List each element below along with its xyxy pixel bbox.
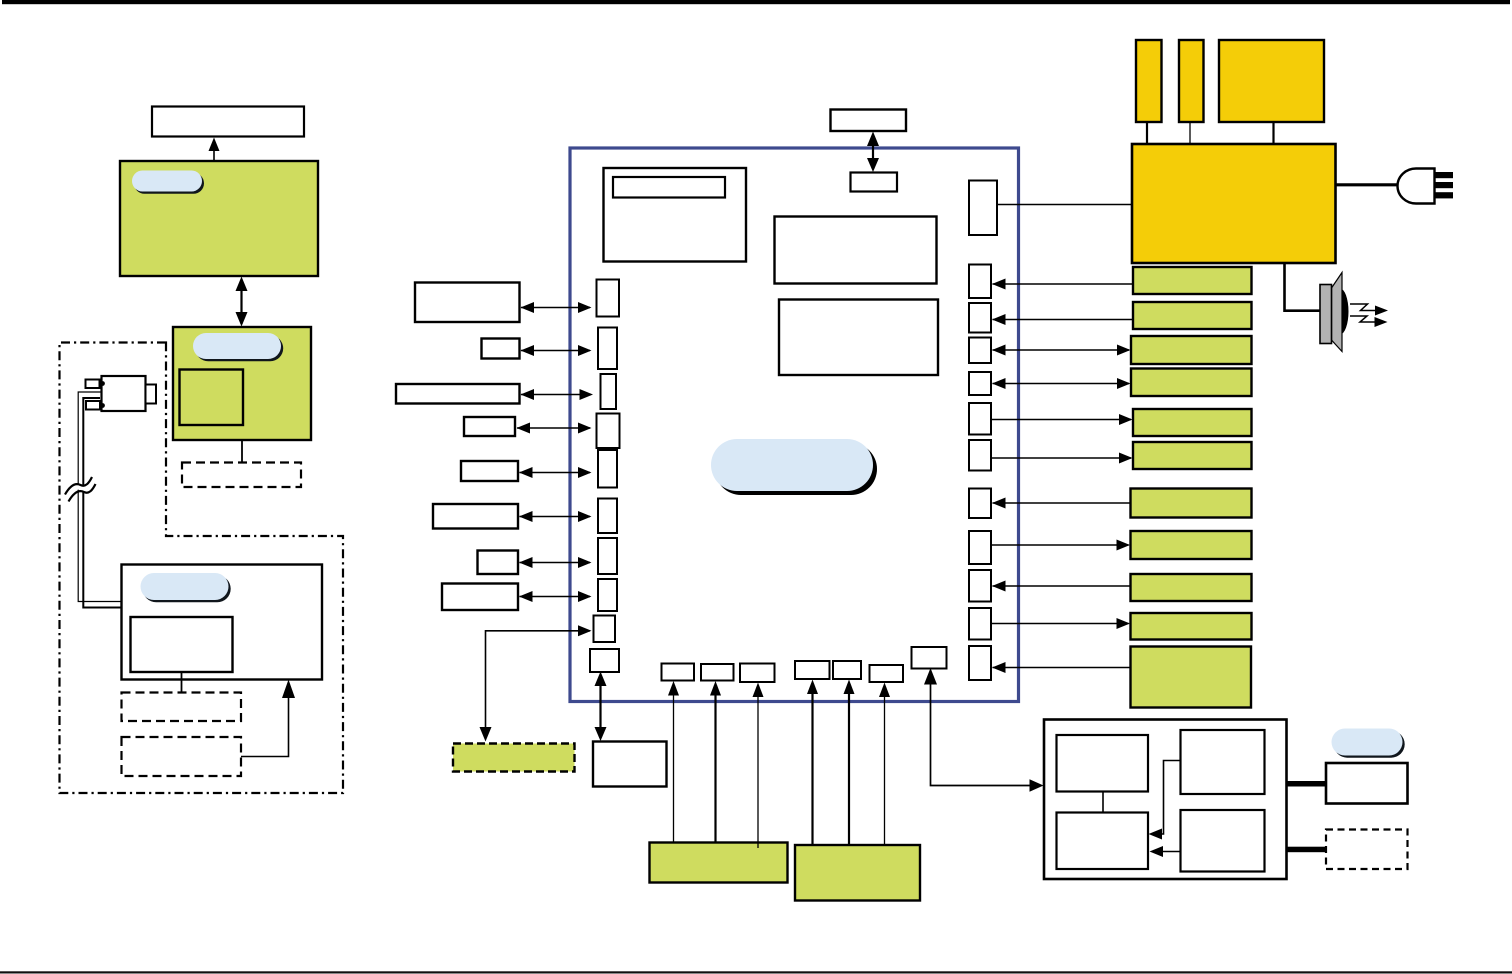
power cord bbox=[1336, 183, 1399, 186]
left port L3 bbox=[601, 374, 617, 409]
left port L7 bbox=[598, 538, 617, 574]
main board outline (navy) bbox=[570, 148, 1019, 702]
right port R6 bbox=[969, 403, 991, 435]
thick lead to dashed option bbox=[1287, 847, 1327, 853]
green bar G5 bbox=[1133, 409, 1252, 436]
small port box below top border bbox=[851, 173, 898, 192]
dashed option box bottom-right bbox=[1326, 830, 1408, 870]
inner square of green module 2 bbox=[180, 370, 244, 426]
bus arrow O7-L7 bbox=[519, 557, 592, 568]
yellow cap block 2 bbox=[1179, 40, 1204, 122]
dashed box below green module 2 bbox=[182, 463, 301, 488]
green bar G6 bbox=[1133, 442, 1252, 469]
green bar G4 bbox=[1131, 369, 1252, 397]
block: green keypad board A bbox=[650, 843, 788, 883]
speaker bbox=[1320, 273, 1349, 352]
left port L6 bbox=[598, 499, 617, 534]
label pill on green module 1 bbox=[132, 171, 204, 194]
right port R11 bbox=[969, 608, 991, 640]
bus arrow O2-L2 bbox=[521, 345, 592, 356]
wire from green module 2 to dashed box bbox=[241, 440, 243, 463]
right port R4 bbox=[969, 338, 991, 364]
double arrow between green module 1 and green module 2 bbox=[236, 277, 248, 327]
bus arrow O3-L3 bbox=[521, 389, 594, 400]
block: upper-right IC on main board bbox=[775, 217, 937, 284]
arrow R9 to G8 bbox=[991, 540, 1130, 551]
elbow arrow from option box B up into interface box bbox=[241, 680, 295, 757]
left port L8 bbox=[598, 579, 617, 611]
bottom port B4 bbox=[795, 661, 830, 679]
block: green module 2 bbox=[173, 327, 311, 440]
footer rule bbox=[0, 971, 1512, 973]
arrow board B to B6 bbox=[879, 683, 890, 846]
green bar G10 bbox=[1131, 613, 1252, 640]
cable break squiggle bbox=[65, 477, 96, 502]
dashed option box B bbox=[122, 737, 242, 776]
green bar G8 bbox=[1131, 531, 1252, 559]
AC plug bbox=[1398, 169, 1454, 204]
wire cap2 to power supply bbox=[1189, 122, 1191, 144]
right port R3 bbox=[969, 303, 991, 333]
header bar bbox=[2, 0, 1510, 4]
arrow G1 to R2 bbox=[992, 279, 1133, 290]
block: left peripheral O8 bbox=[442, 584, 518, 611]
block: left peripheral O7 bbox=[478, 551, 519, 575]
arrow R11 to G10 bbox=[991, 618, 1130, 629]
green bar G1 bbox=[1133, 267, 1252, 294]
right port R10 bbox=[969, 570, 991, 602]
green bar G2 bbox=[1133, 302, 1252, 329]
block: interface box (white) bbox=[122, 565, 323, 680]
block: left peripheral O2 bbox=[482, 339, 520, 359]
bus arrow O6-L6 bbox=[519, 511, 592, 522]
arrow board B to B4 bbox=[807, 680, 818, 846]
label pill on green module 2 bbox=[193, 333, 283, 361]
left port L9 bbox=[594, 616, 616, 643]
block: power group outer box bbox=[1044, 720, 1287, 880]
wire from inner box to dashed option box A bbox=[181, 672, 183, 693]
block: box above main board bbox=[831, 110, 907, 132]
double arrow from L10 to tuner white box bbox=[595, 672, 607, 742]
inner box of interface box bbox=[131, 617, 233, 672]
right port R2 bbox=[969, 265, 991, 299]
wire power supply to speaker bbox=[1285, 263, 1321, 311]
arrow board A to B3 bbox=[753, 683, 764, 849]
bottom port B6 bbox=[870, 665, 904, 682]
block: mid-right IC on main board bbox=[779, 300, 938, 376]
dashed option box A bbox=[122, 693, 242, 722]
block: green keypad board B bbox=[795, 845, 920, 901]
block: left peripheral O4 bbox=[464, 417, 515, 436]
inner block P4 bottom-right bbox=[1181, 810, 1265, 872]
arrow G2 to R3 bbox=[992, 314, 1133, 325]
elbow arrow from B7 to power group bbox=[924, 668, 1044, 792]
sound wave arrow 2 bbox=[1350, 316, 1388, 327]
right port R12 bbox=[969, 646, 991, 680]
bottom port B2 bbox=[701, 664, 734, 681]
block: white box below main board bbox=[593, 742, 667, 787]
block: left peripheral O6 bbox=[433, 504, 518, 529]
left port L2 bbox=[598, 328, 617, 370]
arrow G7 to R8 bbox=[992, 498, 1131, 509]
bottom port B1 bbox=[662, 664, 695, 681]
bus arrow O1-L1 bbox=[521, 302, 592, 313]
left port L1 bbox=[597, 280, 620, 317]
bus arrow O8-L8 bbox=[519, 591, 592, 602]
arrow board B to B5 bbox=[844, 680, 855, 846]
green bar G3 bbox=[1131, 336, 1252, 364]
block: left peripheral O1 bbox=[415, 283, 520, 323]
block: green module 1 bbox=[120, 161, 318, 276]
right port R9 bbox=[969, 531, 991, 564]
bus arrow R5-G4 bbox=[992, 378, 1131, 389]
left port L5 bbox=[598, 450, 617, 488]
double arrow through top border bbox=[867, 132, 879, 173]
left port L4 bbox=[597, 414, 620, 449]
green bar G11 tall bbox=[1131, 647, 1252, 708]
green bar G9 bbox=[1131, 574, 1252, 601]
left port L10 wide bbox=[590, 649, 619, 672]
wire P1 to P3 bbox=[1102, 792, 1104, 813]
bus arrow O5-L5 bbox=[519, 467, 592, 478]
label pill above AC inlet box bbox=[1332, 729, 1405, 758]
arrow board A to B2 bbox=[710, 681, 721, 843]
label pill on interface box bbox=[141, 573, 231, 602]
wire cap3 to power supply bbox=[1272, 122, 1274, 144]
block: left peripheral O3 bbox=[396, 384, 520, 404]
elbow arrow P2 to P3 bbox=[1149, 761, 1181, 840]
arrow R6 to G5 bbox=[991, 414, 1133, 425]
arrow P4 to P3 bbox=[1150, 846, 1181, 857]
arrow R7 to G6 bbox=[991, 453, 1133, 464]
arrow up into top-left white box bbox=[209, 138, 220, 162]
service dashed green block bbox=[453, 744, 575, 772]
block: AC inlet white box bbox=[1326, 763, 1408, 804]
bus arrow R4-G3 bbox=[992, 345, 1131, 356]
connector plug body bbox=[86, 376, 157, 411]
right port R7 bbox=[969, 440, 991, 471]
right port R1 tall bbox=[969, 181, 997, 236]
bottom port B5 bbox=[833, 661, 861, 679]
inner block P1 top-left bbox=[1057, 735, 1149, 792]
block: top-left IC on main board bbox=[604, 168, 747, 262]
sound wave arrow 1 bbox=[1350, 304, 1388, 316]
wire pair from connector down to interface box bbox=[78, 392, 121, 608]
bottom port B3 bbox=[740, 664, 775, 683]
green bar G7 bbox=[1131, 489, 1252, 518]
label pill on main board bbox=[711, 439, 877, 495]
inner block P2 top-right bbox=[1181, 730, 1265, 794]
wire R1 to power supply bbox=[997, 204, 1132, 206]
arrow G11 to R12 bbox=[992, 662, 1131, 673]
right port R8 bbox=[969, 489, 991, 519]
yellow cap block 1 bbox=[1136, 40, 1162, 122]
block: power supply (yellow) bbox=[1132, 144, 1336, 263]
bus arrow O4-L4 bbox=[517, 423, 592, 434]
right port R5 bbox=[969, 372, 991, 395]
thick lead to AC inlet box bbox=[1287, 781, 1327, 787]
wire cap1 to power supply bbox=[1146, 122, 1148, 144]
bottom port B7 raised bbox=[912, 647, 947, 669]
block: top-left white box bbox=[152, 107, 304, 137]
block: left peripheral O5 bbox=[461, 461, 518, 481]
arrow board A to B1 bbox=[668, 681, 679, 843]
dash-dot enclosure (L-shape) bbox=[60, 343, 344, 794]
elbow arrow into L9 and down to service dashed block bbox=[480, 625, 592, 741]
yellow cap block 3 wide bbox=[1219, 40, 1324, 122]
arrow G9 to R10 bbox=[992, 581, 1131, 592]
inner block P3 bottom-left bbox=[1057, 813, 1149, 870]
